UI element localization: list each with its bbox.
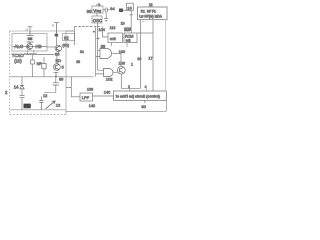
box B xyxy=(92,16,102,23)
junction tick on v2 xyxy=(96,37,99,39)
wire LPF out xyxy=(93,95,114,97)
svg-text:12: 12 xyxy=(43,94,47,98)
stub below bottom box xyxy=(144,100,146,103)
counter box C xyxy=(108,33,123,43)
svg-text:HD: HD xyxy=(56,59,62,63)
svg-text:142: 142 xyxy=(89,104,95,108)
svg-text:Lw NF(M) MDA: Lw NF(M) MDA xyxy=(139,15,163,19)
svg-text:14: 14 xyxy=(14,84,19,89)
svg-text:17: 17 xyxy=(148,56,152,60)
svg-text:1b: 1b xyxy=(121,22,125,26)
capacitor C2 at x=55.8 xyxy=(53,77,59,93)
bottom output box xyxy=(114,91,167,100)
G2 output xyxy=(114,71,118,73)
transistor Q3 xyxy=(54,55,61,71)
rail3 faint right xyxy=(165,20,167,91)
svg-text:30: 30 xyxy=(141,104,146,109)
transistor Q4 xyxy=(117,54,125,89)
wire internal row xyxy=(13,45,48,47)
connector A-B xyxy=(96,13,98,16)
rail2 xyxy=(152,20,154,91)
svg-text:ALC: ALC xyxy=(15,44,24,49)
riser from module top xyxy=(66,27,74,46)
vertical v2 from OSC box xyxy=(96,23,104,70)
svg-text:to add'l adj circuit (control): to add'l adj circuit (control) xyxy=(116,95,161,99)
tick on it xyxy=(130,14,134,16)
lead to box H xyxy=(123,9,127,11)
svg-text:140: 140 xyxy=(104,90,111,95)
svg-text:110: 110 xyxy=(124,28,130,32)
stub above box A xyxy=(96,4,98,6)
LPF box xyxy=(80,93,93,101)
dashed module box 2 (TCXO outline) xyxy=(10,30,67,32)
inner oscillator sub-box xyxy=(12,34,47,52)
wire D to rail2 xyxy=(137,32,153,34)
vertical from box H to counter xyxy=(130,11,132,34)
main tuning wire y=76.8 xyxy=(10,76,66,78)
wire module to LPF xyxy=(66,77,71,97)
svg-text:22: 22 xyxy=(149,3,153,7)
varactor D1 on x=22 xyxy=(20,77,25,110)
trimmer cap C3 xyxy=(39,97,43,110)
adjust arrow xyxy=(46,101,56,109)
wire from sub-box to Q2 xyxy=(47,46,55,48)
svg-text:(10): (10) xyxy=(14,59,22,64)
svg-text:92: 92 xyxy=(64,35,69,40)
svg-text:98: 98 xyxy=(101,44,106,49)
tick near rail1 top xyxy=(142,21,145,23)
resistor R2 chain x=44 xyxy=(42,57,46,77)
power terminal B1 (left, x=30) xyxy=(26,27,33,35)
table box 22 xyxy=(138,7,168,20)
svg-text:LPF: LPF xyxy=(82,95,90,100)
dashed wire y=26.5 xyxy=(74,26,100,28)
capacitor C4 right of box A xyxy=(103,8,110,22)
svg-text:HB: HB xyxy=(36,44,42,49)
svg-text:96: 96 xyxy=(87,9,92,14)
svg-text:106: 106 xyxy=(119,61,125,65)
resistor R1 on stub xyxy=(30,55,34,77)
svg-text:112: 112 xyxy=(110,26,116,30)
svg-text:138: 138 xyxy=(87,88,93,92)
emitter wire to rail1 xyxy=(121,87,140,89)
wire LPF in xyxy=(71,96,80,98)
wire C to D xyxy=(123,37,125,39)
lower wire of sub-circuit xyxy=(24,50,37,54)
svg-text:1: 1 xyxy=(131,62,133,66)
svg-text:b: b xyxy=(98,3,100,7)
NAND gate G2 xyxy=(104,69,114,77)
svg-text:(90): (90) xyxy=(62,43,69,47)
G1 output wire xyxy=(112,53,121,55)
crystal X1 stack xyxy=(27,36,34,44)
power terminal B2 (x=56.5) xyxy=(52,23,59,36)
svg-text:OSC: OSC xyxy=(93,18,102,23)
box H 108 xyxy=(127,3,134,10)
svg-text:cntr: cntr xyxy=(110,37,117,41)
dark junction blob xyxy=(119,9,123,13)
svg-text:16: 16 xyxy=(137,57,141,61)
svg-text:TCXO: TCXO xyxy=(12,53,25,58)
svg-text:34: 34 xyxy=(80,50,84,54)
memory box D xyxy=(124,33,137,43)
svg-text:16: 16 xyxy=(127,5,132,10)
svg-text:12: 12 xyxy=(56,103,61,108)
svg-text:36: 36 xyxy=(76,60,80,64)
NAND gate G1 xyxy=(100,49,112,59)
block box 92 xyxy=(63,34,75,41)
junction bar node 90 xyxy=(55,35,59,37)
vertical v1 xyxy=(96,27,104,77)
bottom return wire xyxy=(66,100,166,111)
wire module out to G2 xyxy=(66,76,93,78)
svg-text:80: 80 xyxy=(55,52,60,57)
svg-text:R1 NF F1: R1 NF F1 xyxy=(141,9,156,13)
stub below C xyxy=(111,43,113,47)
svg-text:Vreg: Vreg xyxy=(93,9,101,13)
svg-text:104: 104 xyxy=(98,27,105,32)
regulator box A xyxy=(92,6,103,13)
transistor Q1 xyxy=(27,44,33,50)
transistor Q2 xyxy=(55,36,61,55)
svg-text:100: 100 xyxy=(119,50,125,54)
rail1 xyxy=(140,20,142,89)
power terminal B3 xyxy=(54,72,59,77)
junction tick v-lines xyxy=(93,31,95,34)
svg-text:102: 102 xyxy=(106,77,113,82)
wire y=54.5 xyxy=(23,54,55,56)
stub below D xyxy=(126,43,128,48)
small wire y=92.5 xyxy=(44,92,56,94)
svg-text:adj: adj xyxy=(126,38,131,42)
wire into counter xyxy=(103,27,109,38)
crystal block 18 (dark) xyxy=(24,104,31,108)
svg-text:5: 5 xyxy=(62,66,64,70)
